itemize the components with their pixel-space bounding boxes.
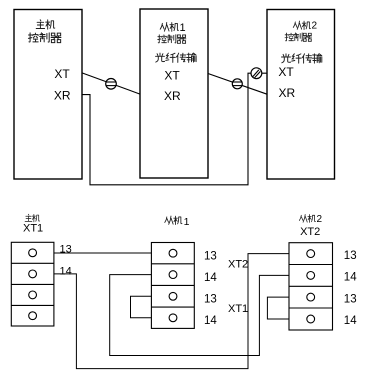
terminal block XT1 (主机) [11,242,54,326]
wire W4 jumper block2 rows 3-4 [131,296,152,318]
label 从机2 (box U3) [293,21,310,29]
svg-text:13: 13 [204,251,217,263]
svg-text:XT2: XT2 [228,258,248,270]
svg-text:1: 1 [184,216,190,228]
wire W2 block1.14 to block3 row1 [54,254,289,369]
svg-text:XT1: XT1 [228,303,248,315]
controller box U2 从机1控制器 [140,9,208,178]
wire fiber U1.XT to U2.XR [82,73,140,94]
svg-text:1: 1 [180,22,186,34]
svg-text:XT: XT [164,69,180,83]
label 从机1 (block 2 header) [165,216,182,224]
svg-text:XT2: XT2 [300,226,320,238]
label 控制器 (box U1) [28,33,61,43]
svg-text:13: 13 [204,294,217,306]
wire W5 jumper block3 rows 3-4 [267,297,289,319]
svg-text:XR: XR [164,89,181,103]
svg-text:2: 2 [317,214,323,225]
svg-text:14: 14 [204,315,217,327]
svg-text:14: 14 [344,272,357,284]
label 从机2 (block 3 header) [299,214,315,222]
wire W1 block1.13 to block2.13 [54,252,151,254]
svg-text:XT: XT [278,65,294,79]
label 从机1 (box U2) [160,22,178,31]
label 主机 (box U1) [36,20,55,29]
label 光纤传输 (box U3) [282,54,322,63]
wire fiber U3.XT return to U1.XR [82,73,267,185]
svg-text:14: 14 [344,315,357,327]
svg-text:XT1: XT1 [23,223,43,235]
controller box U3 从机2控制器 [267,10,335,180]
wire W3 block2 row2 to block3 row2 [110,275,289,356]
optical coupler symbol A [106,79,117,90]
svg-text:13: 13 [344,293,357,305]
svg-text:14: 14 [204,272,217,284]
label 控制器 (box U3) [285,33,311,41]
svg-text:14: 14 [60,265,72,277]
optical coupler symbol B [232,79,242,89]
wire fiber U2.XT to U3.XR [208,74,267,95]
label 控制器 (box U2) [158,35,186,44]
svg-text:2: 2 [312,21,318,32]
svg-text:XT: XT [54,67,70,81]
label 光纤传输 (box U2) [156,53,197,62]
optical coupler symbol C [251,68,262,79]
terminal block 从机1 [151,243,194,329]
controller box U1 主机控制器 [14,10,82,180]
svg-text:XR: XR [54,89,71,103]
label 主机 (terminal block XT1 header) [25,214,40,222]
terminal block XT2 (从机2) [289,243,333,330]
svg-text:XR: XR [278,86,295,100]
svg-text:13: 13 [60,244,72,256]
svg-text:13: 13 [344,250,357,262]
